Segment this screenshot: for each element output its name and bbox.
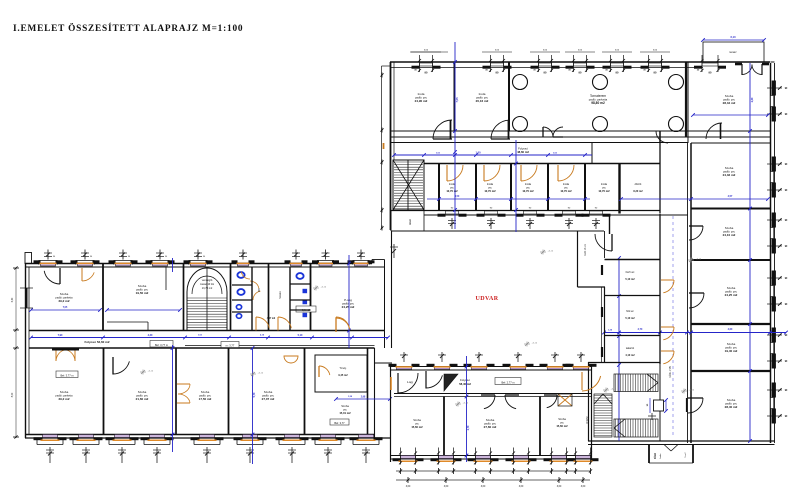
svg-text:12,70 m2: 12,70 m2 bbox=[484, 189, 496, 193]
svg-text:12,70 m2: 12,70 m2 bbox=[560, 189, 572, 193]
svg-text:4,20: 4,20 bbox=[148, 334, 153, 337]
svg-text:3,60: 3,60 bbox=[653, 50, 658, 52]
svg-text:15,60 m2: 15,60 m2 bbox=[411, 425, 423, 429]
svg-text:m: 3,77: m: 3,77 bbox=[226, 343, 235, 347]
svg-text:Szoba: Szoba bbox=[725, 226, 734, 230]
svg-text:marad 16 fok: marad 16 fok bbox=[200, 283, 215, 286]
svg-text:terasz: terasz bbox=[729, 50, 737, 54]
svg-text:Bel: 3,77 m: Bel: 3,77 m bbox=[60, 373, 73, 377]
svg-text:19,50 m2: 19,50 m2 bbox=[136, 291, 149, 295]
svg-text:+3,10: +3,10 bbox=[696, 259, 702, 261]
svg-text:+3,10: +3,10 bbox=[321, 287, 327, 289]
svg-text:90: 90 bbox=[654, 70, 657, 74]
svg-text:2,70: 2,70 bbox=[638, 328, 643, 331]
svg-text:Szoba: Szoba bbox=[725, 94, 734, 98]
svg-text:1,20: 1,20 bbox=[348, 396, 353, 398]
svg-text:13,78 m2: 13,78 m2 bbox=[202, 287, 213, 290]
svg-text:Bel: 2,77 m: Bel: 2,77 m bbox=[501, 380, 514, 384]
svg-text:24,32 m2: 24,32 m2 bbox=[723, 173, 736, 177]
svg-text:90: 90 bbox=[785, 416, 788, 418]
svg-text:3,60: 3,60 bbox=[406, 486, 411, 488]
svg-text:1,35: 1,35 bbox=[608, 330, 613, 332]
svg-text:5,10: 5,10 bbox=[298, 334, 303, 337]
svg-text:19,40 m2: 19,40 m2 bbox=[725, 349, 738, 353]
svg-text:Iroda: Iroda bbox=[601, 182, 608, 186]
svg-text:90: 90 bbox=[451, 208, 454, 210]
svg-text:öltöző: öltöző bbox=[635, 183, 642, 186]
svg-text:Folyosó 52,60 m2: Folyosó 52,60 m2 bbox=[84, 340, 109, 344]
svg-text:28,40 m2: 28,40 m2 bbox=[725, 405, 738, 409]
svg-text:I.EMELET ÖSSZESÍTETT ALAPRAJZ: I.EMELET ÖSSZESÍTETT ALAPRAJZ M=1:100 bbox=[13, 21, 243, 34]
svg-text:+3,10: +3,10 bbox=[689, 390, 695, 392]
svg-text:90: 90 bbox=[709, 70, 712, 74]
svg-text:1,01: 1,01 bbox=[553, 153, 558, 155]
svg-text:Mosdó: Mosdó bbox=[279, 291, 282, 299]
svg-text:1,01: 1,01 bbox=[436, 153, 441, 155]
svg-text:Szoba: Szoba bbox=[413, 418, 421, 422]
svg-text:1,60: 1,60 bbox=[475, 151, 481, 155]
svg-text:90: 90 bbox=[496, 70, 499, 74]
svg-text:ZÖLD: ZÖLD bbox=[654, 453, 657, 460]
svg-text:90: 90 bbox=[616, 70, 619, 74]
svg-text:29,2 m2: 29,2 m2 bbox=[58, 299, 69, 303]
svg-text:28,34 m2: 28,34 m2 bbox=[723, 101, 736, 105]
svg-text:90: 90 bbox=[568, 208, 571, 210]
svg-text:Szoba: Szoba bbox=[138, 284, 147, 288]
svg-text:90: 90 bbox=[785, 390, 788, 392]
svg-text:4,70: 4,70 bbox=[467, 425, 470, 430]
svg-text:UDVAR: UDVAR bbox=[476, 296, 499, 302]
svg-text:24,25 m2: 24,25 m2 bbox=[342, 305, 355, 309]
svg-text:Szoba: Szoba bbox=[264, 390, 273, 394]
svg-text:21,60 m2: 21,60 m2 bbox=[136, 397, 149, 401]
svg-text:3,60: 3,60 bbox=[481, 486, 486, 488]
svg-text:vendéglő: vendéglő bbox=[202, 278, 213, 282]
svg-text:8,20: 8,20 bbox=[12, 392, 14, 397]
svg-text:24,10 m2: 24,10 m2 bbox=[723, 233, 736, 237]
svg-text:90: 90 bbox=[544, 70, 547, 74]
svg-text:Bel: 3,77: Bel: 3,77 bbox=[334, 421, 345, 425]
svg-text:7,05: 7,05 bbox=[63, 307, 68, 309]
svg-text:4,20: 4,20 bbox=[751, 97, 754, 102]
svg-text:90: 90 bbox=[785, 190, 788, 192]
svg-text:90: 90 bbox=[785, 335, 788, 337]
svg-text:90: 90 bbox=[785, 278, 788, 280]
svg-text:90: 90 bbox=[785, 361, 788, 363]
svg-text:90: 90 bbox=[490, 208, 493, 210]
svg-text:Szoba: Szoba bbox=[727, 342, 736, 346]
svg-text:30: 30 bbox=[414, 70, 417, 72]
svg-text:Iroda: Iroda bbox=[563, 182, 570, 186]
svg-text:12,70 m2: 12,70 m2 bbox=[598, 189, 610, 193]
svg-text:Férfi wc: Férfi wc bbox=[626, 271, 636, 274]
svg-text:9,45 m2: 9,45 m2 bbox=[338, 374, 348, 377]
svg-text:Szoba: Szoba bbox=[727, 398, 736, 402]
svg-text:Szoba: Szoba bbox=[60, 390, 69, 394]
svg-text:3,60: 3,60 bbox=[615, 50, 620, 52]
svg-text:2,98: 2,98 bbox=[361, 397, 366, 399]
svg-text:17,50 m2: 17,50 m2 bbox=[199, 397, 212, 401]
svg-text:3,50: 3,50 bbox=[455, 196, 460, 198]
svg-text:Szoba: Szoba bbox=[486, 418, 495, 422]
svg-text:90: 90 bbox=[579, 70, 582, 74]
svg-text:98,80 m2: 98,80 m2 bbox=[591, 101, 605, 105]
svg-text:+3,10: +3,10 bbox=[258, 373, 264, 375]
svg-text:90: 90 bbox=[595, 208, 598, 210]
svg-text:Szoba: Szoba bbox=[60, 292, 69, 296]
svg-text:3,60: 3,60 bbox=[495, 50, 500, 52]
svg-text:30: 30 bbox=[485, 70, 488, 72]
svg-text:3,60: 3,60 bbox=[578, 50, 583, 52]
svg-text:+3,10: +3,10 bbox=[148, 371, 154, 373]
svg-text:I.EM 13 LK: I.EM 13 LK bbox=[584, 244, 587, 256]
svg-text:3,60: 3,60 bbox=[519, 486, 524, 488]
svg-text:4,10 m2: 4,10 m2 bbox=[625, 354, 635, 357]
svg-text:48,60 m2: 48,60 m2 bbox=[517, 150, 529, 154]
svg-text:7,05: 7,05 bbox=[455, 97, 459, 103]
svg-text:3,60: 3,60 bbox=[444, 486, 449, 488]
svg-text:24,25 m2: 24,25 m2 bbox=[725, 293, 738, 297]
svg-text:+3,10: +3,10 bbox=[463, 403, 469, 405]
svg-text:90: 90 bbox=[203, 256, 206, 258]
svg-text:30: 30 bbox=[697, 70, 700, 72]
svg-text:Bel: 3,77 m: Bel: 3,77 m bbox=[155, 343, 168, 347]
svg-text:Szoba: Szoba bbox=[725, 166, 734, 170]
svg-text:3,60: 3,60 bbox=[424, 50, 429, 52]
svg-text:8,20 m2: 8,20 m2 bbox=[633, 190, 643, 193]
svg-text:Szoba: Szoba bbox=[558, 417, 566, 421]
svg-text:30: 30 bbox=[643, 70, 646, 72]
svg-text:WC: WC bbox=[258, 288, 261, 292]
svg-text:90: 90 bbox=[785, 304, 788, 306]
svg-text:90: 90 bbox=[785, 114, 788, 116]
svg-text:Szoba: Szoba bbox=[727, 286, 736, 290]
svg-text:5,10 m2: 5,10 m2 bbox=[625, 278, 635, 281]
svg-text:5,70: 5,70 bbox=[253, 392, 256, 397]
svg-text:KÖZL 7,95: KÖZL 7,95 bbox=[669, 366, 672, 378]
svg-text:Szoba: Szoba bbox=[341, 404, 349, 408]
svg-text:Szoba: Szoba bbox=[138, 390, 147, 394]
svg-text:5,10 m2: 5,10 m2 bbox=[625, 317, 635, 320]
svg-text:30: 30 bbox=[533, 70, 536, 72]
svg-text:58,40 m2: 58,40 m2 bbox=[459, 382, 471, 386]
svg-text:+3,10: +3,10 bbox=[611, 389, 617, 391]
svg-text:30: 30 bbox=[605, 70, 608, 72]
svg-text:tálaló: tálaló bbox=[409, 218, 412, 224]
svg-text:90: 90 bbox=[785, 246, 788, 248]
svg-text:3,60: 3,60 bbox=[557, 486, 562, 488]
svg-text:P-ség: P-ség bbox=[344, 298, 352, 302]
svg-text:6,40: 6,40 bbox=[12, 297, 14, 302]
svg-text:4,57: 4,57 bbox=[728, 195, 733, 198]
svg-text:kuka: kuka bbox=[660, 453, 662, 458]
svg-text:90: 90 bbox=[529, 208, 532, 210]
svg-text:Iroda: Iroda bbox=[525, 182, 532, 186]
svg-text:90: 90 bbox=[128, 256, 131, 258]
svg-text:90: 90 bbox=[53, 256, 56, 258]
svg-text:90: 90 bbox=[90, 256, 93, 258]
svg-text:90: 90 bbox=[785, 164, 788, 166]
svg-text:20,16 m2: 20,16 m2 bbox=[476, 99, 489, 103]
svg-text:27,60 m2: 27,60 m2 bbox=[484, 425, 497, 429]
svg-text:27,07 m2: 27,07 m2 bbox=[262, 397, 275, 401]
svg-text:4,60: 4,60 bbox=[728, 328, 733, 331]
svg-text:1,01: 1,01 bbox=[198, 335, 203, 337]
svg-text:Női wc: Női wc bbox=[626, 310, 634, 313]
svg-text:90: 90 bbox=[165, 256, 168, 258]
svg-text:29,2 m2: 29,2 m2 bbox=[58, 397, 69, 401]
svg-text:Iroda: Iroda bbox=[418, 92, 425, 96]
svg-text:takarító: takarító bbox=[626, 347, 635, 350]
svg-text:90: 90 bbox=[785, 88, 788, 90]
svg-text:1-ágy: 1-ágy bbox=[407, 381, 414, 384]
svg-text:12,70 m2: 12,70 m2 bbox=[446, 189, 458, 193]
svg-text:Szoba: Szoba bbox=[201, 390, 210, 394]
svg-text:30: 30 bbox=[568, 70, 571, 72]
svg-text:+3,10: +3,10 bbox=[548, 251, 554, 253]
svg-text:3,60: 3,60 bbox=[581, 486, 586, 488]
svg-text:T-hely.: T-hely. bbox=[339, 367, 347, 370]
svg-text:2,10: 2,10 bbox=[260, 335, 265, 337]
svg-text:5 m2: 5 m2 bbox=[685, 452, 687, 458]
svg-text:Iroda: Iroda bbox=[479, 92, 486, 96]
svg-text:Iroda: Iroda bbox=[487, 182, 494, 186]
svg-text:90: 90 bbox=[647, 403, 649, 406]
svg-text:7,90: 7,90 bbox=[58, 334, 63, 337]
svg-text:3,60: 3,60 bbox=[543, 50, 548, 52]
svg-text:6,10: 6,10 bbox=[730, 35, 736, 39]
svg-text:4,07 m2: 4,07 m2 bbox=[267, 317, 276, 320]
svg-text:15,60 m2: 15,60 m2 bbox=[556, 424, 568, 428]
svg-text:15,01 m2: 15,01 m2 bbox=[339, 411, 351, 415]
svg-text:90: 90 bbox=[785, 220, 788, 222]
svg-text:12,70 m2: 12,70 m2 bbox=[522, 189, 534, 193]
svg-text:24,90 m2: 24,90 m2 bbox=[415, 99, 428, 103]
svg-text:+3,10: +3,10 bbox=[532, 343, 538, 345]
svg-text:90: 90 bbox=[425, 70, 428, 74]
